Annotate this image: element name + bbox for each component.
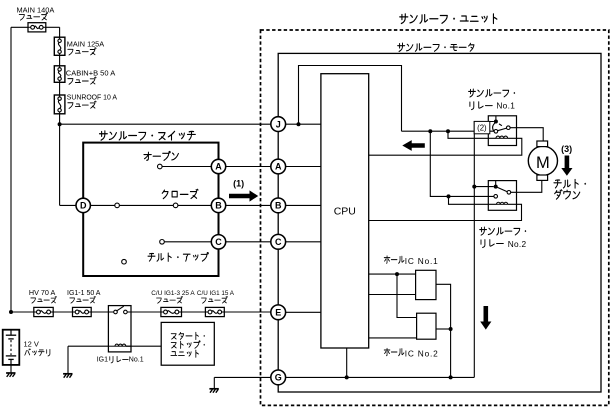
wire CPU to ground bus — [346, 348, 348, 377]
wire CPU to hall1 a — [369, 273, 416, 275]
wire CPU to relay2 coil — [369, 204, 522, 220]
connector G unit — [271, 370, 286, 385]
ground IG1 relay — [63, 373, 72, 375]
wire B+ to relay1 NC — [402, 130, 495, 132]
fuse C/U IG1 15A — [205, 307, 224, 316]
wire switch B to unit B — [226, 204, 271, 206]
label sunroof relay No.2 — [480, 227, 526, 235]
svg-text:HV 70 A: HV 70 A — [29, 288, 56, 297]
wire CPU to relay1 coil — [369, 138, 522, 155]
svg-text:E: E — [275, 308, 281, 318]
start-stop unit — [161, 322, 214, 365]
wire relay1 NO to motor — [510, 128, 543, 142]
contact open — [158, 164, 163, 169]
label hall IC No.1 — [384, 256, 404, 263]
connector B unit — [271, 198, 286, 213]
fuse MAIN 125A — [54, 37, 65, 55]
relay IG1 No.1 — [108, 306, 131, 352]
svg-text:(2): (2) — [477, 124, 487, 133]
label hall IC No.2 — [384, 348, 404, 355]
wire branch to coil2 — [449, 196, 497, 204]
label close — [162, 189, 198, 198]
relay sunroof No.2 — [488, 181, 516, 211]
svg-text:CPU: CPU — [334, 205, 356, 217]
svg-text:C: C — [215, 237, 222, 247]
svg-text:B: B — [215, 201, 222, 211]
svg-text:M: M — [536, 154, 550, 172]
arrow step 1 — [229, 190, 258, 201]
wire G ground bus — [285, 376, 474, 378]
connector A unit — [271, 159, 286, 174]
wire A to CPU — [285, 166, 321, 168]
label open — [144, 151, 179, 160]
wire CPU to hall1 b — [369, 294, 416, 296]
ground battery — [6, 372, 15, 374]
label step 2 — [474, 121, 490, 133]
wire sunroof fuse to connector J — [60, 123, 271, 125]
junction hall ground — [449, 375, 453, 379]
svg-text:D: D — [80, 201, 87, 211]
wire branch to relay2 row — [430, 131, 494, 196]
svg-text:CABIN+B 50 A: CABIN+B 50 A — [66, 69, 115, 78]
wire IG1 relay coil to ground — [68, 345, 108, 347]
svg-text:SUNROOF 10 A: SUNROOF 10 A — [67, 95, 118, 102]
junction B+ branch relay2 — [428, 129, 432, 133]
arrow tilt down — [561, 156, 572, 176]
arrow relay drive — [402, 140, 425, 151]
wire branch to coil1 — [448, 131, 496, 138]
connector E unit — [271, 305, 286, 320]
wire C to CPU — [285, 241, 321, 243]
fuse HV 70A — [34, 307, 53, 316]
fuse CABIN+B 50A — [54, 66, 65, 83]
wire relay commons to ground bus — [474, 122, 494, 378]
fuse MAIN 140A — [28, 23, 46, 32]
sunroof switch box — [83, 143, 218, 276]
svg-text:IC No.1: IC No.1 — [405, 256, 439, 266]
junction B+ branch coil1 — [446, 129, 450, 133]
relay sunroof No.1 — [488, 116, 516, 146]
svg-text:C/U IG1 15 A: C/U IG1 15 A — [197, 290, 235, 297]
arrow hall signal — [480, 306, 491, 330]
svg-text:IG1: IG1 — [97, 356, 108, 363]
connector B switch — [211, 198, 225, 212]
wire J to CPU — [285, 123, 321, 125]
label sunroof switch — [99, 131, 195, 140]
junction battery positive — [9, 310, 13, 314]
fuse SUNROOF 10A — [54, 95, 65, 114]
junction CPU ground — [345, 375, 349, 379]
label tilt-up — [148, 253, 208, 262]
wire E to CPU — [285, 311, 321, 313]
wire main IG feed — [11, 311, 271, 313]
junction relay2 common — [472, 185, 476, 189]
connector A switch — [211, 159, 225, 173]
sunroof motor box — [278, 53, 601, 392]
label sunroof motor — [398, 43, 474, 51]
svg-text:12 V: 12 V — [24, 340, 39, 349]
fuse C/U IG1-3 25A — [161, 307, 182, 316]
hall IC No.1 — [416, 270, 436, 299]
wire to relay2 common — [474, 186, 493, 188]
connector C switch — [211, 235, 225, 249]
wire CPU to hall2 b — [369, 337, 417, 339]
svg-text:MAIN 125A: MAIN 125A — [67, 39, 104, 48]
svg-text:C/U IG1-3 25 A: C/U IG1-3 25 A — [151, 290, 195, 297]
wire B to CPU — [285, 204, 321, 206]
wire unit ground to connector G — [214, 376, 271, 378]
svg-text:G: G — [275, 373, 282, 383]
wire relay2 NO to motor — [511, 180, 542, 192]
connector J unit — [271, 117, 286, 132]
sunroof unit dashed box — [261, 30, 609, 405]
svg-text:(1): (1) — [233, 179, 244, 189]
battery 12V — [3, 330, 20, 365]
wire battery positive rail (left) — [10, 27, 12, 312]
junction hall outputs — [449, 327, 453, 331]
svg-text:IG1-1 50 A: IG1-1 50 A — [67, 290, 101, 297]
svg-text:B: B — [275, 201, 282, 211]
svg-text:No.1: No.1 — [129, 356, 144, 363]
svg-text:No.1: No.1 — [496, 100, 515, 110]
svg-text:IC No.2: IC No.2 — [405, 348, 439, 358]
wire rail to switch common D — [60, 204, 76, 206]
svg-text:A: A — [275, 162, 282, 172]
svg-text:No.2: No.2 — [508, 239, 527, 249]
wire MAIN 140A to fuse column — [46, 26, 60, 28]
contact tilt-up common — [122, 259, 127, 264]
wire hall2 output — [436, 328, 451, 330]
contact close — [90, 204, 114, 206]
connector D — [76, 198, 90, 212]
junction J branch — [297, 122, 301, 126]
wire hall branch to hall2 — [397, 274, 417, 317]
wire IG1 relay coil to start-stop unit — [126, 345, 161, 347]
junction hall branch — [395, 272, 399, 276]
svg-text:MAIN 140A: MAIN 140A — [17, 5, 55, 14]
label sunroof unit — [400, 14, 497, 24]
fuse IG1-1 50A — [73, 307, 92, 316]
wire J loop to relays (B+) — [299, 66, 402, 132]
connector C unit — [271, 234, 286, 249]
label start-stop unit — [171, 332, 205, 339]
junction relay2 coil branch — [447, 194, 451, 198]
svg-text:J: J — [276, 119, 281, 129]
wire hall1 output — [436, 284, 451, 377]
contact tilt-up — [160, 240, 165, 245]
wire battery to ground — [10, 365, 12, 373]
svg-text:C: C — [275, 237, 282, 247]
CPU box — [321, 74, 369, 348]
motor M — [528, 146, 557, 175]
wire switch C to unit C — [226, 241, 271, 243]
ground connector G — [209, 388, 218, 390]
label tilt down — [554, 179, 586, 188]
wire switch A to unit A — [226, 166, 271, 168]
hall IC No.2 — [417, 313, 436, 339]
label sunroof relay No.1 — [469, 89, 515, 97]
svg-text:A: A — [215, 162, 222, 172]
junction sunroof fuse output — [58, 122, 62, 126]
svg-text:(3): (3) — [561, 144, 572, 154]
